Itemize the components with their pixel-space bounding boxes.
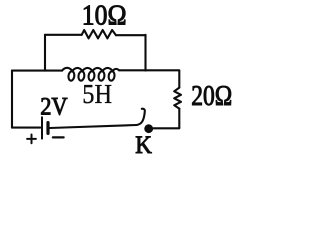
svg-text:K: K (135, 132, 152, 158)
wire: switch dot to right corner (153, 127, 179, 129)
wire: left vertical from top branch to middle branch (44, 35, 46, 71)
wire: top branch left segment (45, 34, 82, 36)
wire: top branch right segment (116, 34, 146, 36)
inductor L1 loop 1 (68, 71, 75, 81)
minus sign of battery (53, 136, 64, 138)
svg-text:5H: 5H (82, 79, 112, 109)
inductor L1 5H humps (62, 68, 119, 71)
resistor R1 10ohm zigzag (82, 30, 116, 38)
inductor L1 loop 3 (88, 71, 95, 81)
switch K blade (137, 109, 145, 125)
wire: middle branch left segment (12, 70, 62, 72)
wire: right vertical from top branch to middle branch (144, 35, 146, 71)
inductor L1 loop 5 (108, 71, 115, 81)
wire: right vertical lower segment (178, 109, 180, 128)
svg-text:2V: 2V (40, 92, 68, 121)
svg-text:10Ω: 10Ω (82, 0, 127, 31)
resistor R2 20ohm zigzag (174, 88, 181, 109)
inductor L1 loop 2 (78, 71, 85, 81)
battery B1 long plate (41, 117, 43, 138)
wire: right vertical upper segment (178, 71, 180, 88)
wire: middle branch right segment (119, 69, 179, 71)
switch K contact dot (144, 124, 153, 133)
wire: battery to switch (50, 125, 137, 128)
inductor L1 loop 4 (98, 71, 105, 81)
svg-text:20Ω: 20Ω (191, 80, 232, 111)
battery B1 short plate (46, 123, 49, 134)
wire: left outer vertical (11, 71, 13, 128)
plus sign of battery (27, 135, 36, 144)
wire: bottom left segment to battery (12, 127, 40, 129)
